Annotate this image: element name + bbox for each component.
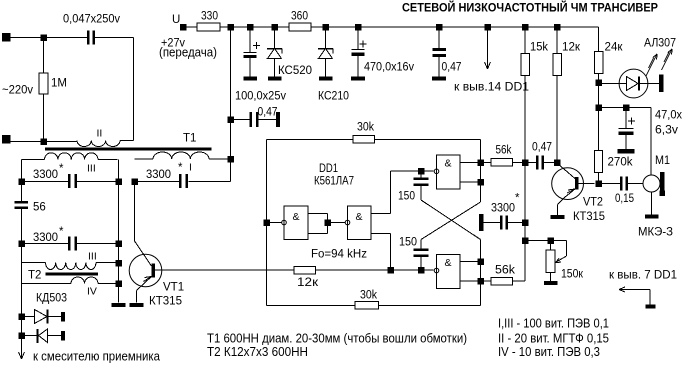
svg-text:150: 150	[399, 237, 417, 249]
svg-text:I: I	[189, 162, 192, 174]
svg-text:к смесителю приемника: к смесителю приемника	[33, 349, 161, 364]
svg-text:III: III	[88, 251, 97, 263]
svg-text:*: *	[178, 162, 183, 174]
svg-text:3300: 3300	[33, 232, 58, 244]
svg-text:0,47: 0,47	[532, 142, 552, 154]
svg-text:24к: 24к	[605, 42, 624, 54]
svg-text:КД503: КД503	[36, 293, 67, 305]
svg-text:III: III	[87, 163, 96, 175]
svg-text:IV: IV	[87, 286, 97, 298]
svg-text:1M: 1M	[51, 78, 67, 90]
svg-text:Т1: Т1	[183, 133, 196, 145]
svg-text:3300: 3300	[146, 169, 171, 181]
svg-text:II - 20 вит. МГТФ 0,15: II - 20 вит. МГТФ 0,15	[498, 332, 609, 346]
svg-text:*: *	[515, 193, 520, 205]
svg-text:U: U	[172, 14, 180, 26]
svg-text:56k: 56k	[495, 265, 515, 277]
svg-text:0,47: 0,47	[442, 62, 462, 74]
svg-text:470,0x16v: 470,0x16v	[364, 62, 414, 74]
svg-text:*: *	[59, 226, 64, 238]
svg-text:12к: 12к	[562, 42, 581, 54]
svg-text:15k: 15k	[530, 42, 548, 54]
svg-text:КС520: КС520	[278, 65, 312, 77]
svg-text:*: *	[59, 163, 64, 175]
svg-text:СЕТЕВОЙ НИЗКОЧАСТОТНЫЙ ЧМ Т: СЕТЕВОЙ НИЗКОЧАСТОТНЫЙ ЧМ ТРАНСИВЕР	[402, 0, 658, 15]
svg-text:12к: 12к	[297, 277, 319, 289]
svg-text:к выв.14 DD1: к выв.14 DD1	[454, 80, 529, 94]
svg-text:Т2: Т2	[28, 270, 41, 282]
svg-text:&: &	[444, 158, 451, 170]
svg-text:0,15: 0,15	[615, 193, 634, 205]
svg-text:270k: 270k	[608, 157, 633, 169]
svg-text:I,III - 100 вит. ПЭВ 0,1: I,III - 100 вит. ПЭВ 0,1	[498, 317, 609, 331]
svg-text:&: &	[444, 257, 451, 269]
svg-text:3300: 3300	[33, 169, 58, 181]
svg-text:3300: 3300	[491, 203, 515, 215]
svg-text:150: 150	[398, 191, 415, 203]
svg-text:Т2 К12х7х3 600НН: Т2 К12х7х3 600НН	[207, 345, 308, 359]
svg-text:56k: 56k	[496, 145, 512, 157]
svg-text:II: II	[97, 128, 103, 140]
svg-text:Fo=94 kHz: Fo=94 kHz	[311, 249, 367, 261]
svg-text:&: &	[355, 211, 362, 223]
svg-text:30k: 30k	[360, 290, 377, 302]
svg-text:DD1: DD1	[319, 163, 338, 175]
svg-text:100,0х25v: 100,0х25v	[235, 91, 286, 103]
svg-text:150к: 150к	[561, 269, 584, 281]
svg-text:330: 330	[201, 11, 218, 23]
svg-text:VT1: VT1	[163, 282, 184, 294]
svg-text:МКЭ-З: МКЭ-З	[638, 227, 673, 239]
svg-text:&: &	[292, 211, 299, 223]
svg-text:0,47: 0,47	[258, 107, 278, 119]
svg-text:Т1 600НН диам. 20-30мм (что: Т1 600НН диам. 20-30мм (чтобы вошли обмо…	[207, 332, 467, 346]
svg-text:(передача): (передача)	[159, 46, 217, 60]
svg-text:VT2: VT2	[583, 197, 603, 209]
svg-text:0,047x250v: 0,047x250v	[63, 14, 120, 26]
svg-text:АЛ307: АЛ307	[644, 38, 676, 50]
svg-text:56: 56	[33, 202, 46, 214]
svg-text:КС210: КС210	[318, 91, 349, 103]
svg-text:КТ315: КТ315	[573, 211, 605, 223]
svg-text:к выв. 7 DD1: к выв. 7 DD1	[609, 268, 677, 282]
svg-text:47,0x: 47,0x	[655, 110, 682, 122]
svg-text:К561ЛА7: К561ЛА7	[314, 176, 354, 188]
svg-text:КТ315: КТ315	[149, 296, 182, 308]
svg-text:М1: М1	[655, 155, 670, 167]
svg-text:6,3v: 6,3v	[655, 125, 678, 137]
svg-text:~220v: ~220v	[2, 85, 33, 97]
svg-text:IV - 10 вит. ПЭВ 0,3: IV - 10 вит. ПЭВ 0,3	[498, 345, 600, 359]
svg-text:30k: 30k	[357, 122, 374, 134]
svg-text:360: 360	[291, 11, 308, 23]
